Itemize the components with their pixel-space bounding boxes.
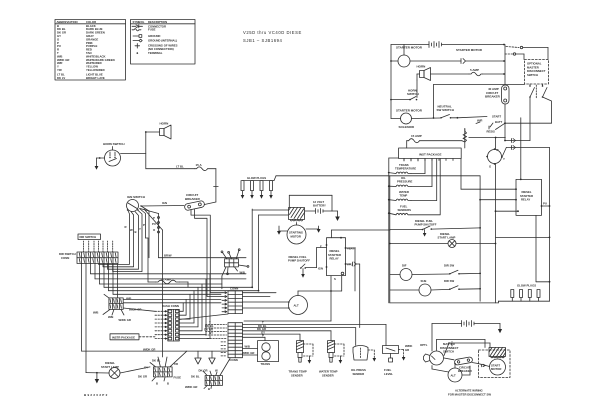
svg-text:DK LV: DK LV [57,76,65,80]
battery ground arrow [498,324,502,334]
glow plugs right bank [498,284,549,302]
starting motor M3 [287,223,306,245]
svg-text:FUSE: FUSE [148,28,156,32]
svg-text:Y: Y [139,227,141,231]
svg-text:W/B: W/B [93,311,98,315]
lamp bus left [390,176,499,303]
trans T1 [242,337,279,366]
svg-text:15 A: 15 A [196,163,203,167]
ground arrows under W/DK GR wire [195,351,215,364]
ignition switch S6 [127,195,146,212]
svg-text:P: P [143,223,145,227]
optional master disconnect switch S2 [525,60,549,85]
fuse F3 15 A [146,163,216,171]
svg-text:SENDER: SENDER [291,373,303,377]
circuit breaker CB2 [141,193,216,211]
svg-text:BRIGHT LAVE: BRIGHT LAVE [86,76,105,80]
svg-text:Y/R: Y/R [57,68,62,72]
battery top loop wire [289,195,337,211]
connector J2 8-pin [93,294,155,322]
horn switch feed wire [121,132,146,169]
conn strip J4 [222,286,243,313]
dash conn J3 [155,274,228,341]
small connector K 6-pin [221,249,249,289]
relay wire from bus [479,176,516,301]
svg-text:R: R [497,148,499,152]
legend table left border [55,20,126,81]
svg-text:DIF: DIF [402,264,407,268]
svg-text:TEMPERATURE: TEMPERATURE [395,166,416,170]
wires into dir switch conn from above [84,241,113,252]
svg-text:+PU: +PU [347,263,353,267]
svg-text:HORN: HORN [160,122,169,126]
svg-text:GLOW PLUGS: GLOW PLUGS [517,284,536,288]
relay output to glow plug bus [496,206,551,282]
battery ground [335,211,340,221]
water temp sender [319,331,344,378]
svg-text:SYMBOL: SYMBOL [133,20,145,24]
svg-text:P: P [153,216,155,220]
svg-text:SW SWITCH: SW SWITCH [437,108,455,112]
diesel start lamp DS1 right [389,232,497,248]
starter motor M1 [396,45,423,68]
svg-text:HORN SWITCH: HORN SWITCH [103,142,125,146]
svg-text:CONN: CONN [230,358,238,362]
svg-text:OPTL: OPTL [420,343,428,347]
glow plug feed line [274,176,480,181]
svg-text:YELLOW/RED: YELLOW/RED [86,68,105,72]
svg-text:START LAMP: START LAMP [438,235,456,239]
svg-text:CONN: CONN [61,256,69,260]
legend symbol ground internal [133,39,142,42]
svg-text:PUMP SHUTOFF: PUMP SHUTOFF [288,259,310,263]
svg-text:B: B [135,230,137,234]
svg-text:DK GR: DK GR [199,369,208,373]
svg-text:STARTER MOTOR: STARTER MOTOR [396,46,423,50]
key switch feed wire [469,137,506,149]
long feed wires from left [82,264,260,373]
svg-text:G: G [489,165,491,169]
alternate wiring connections [432,340,490,376]
battery BAT3 [432,321,500,327]
gauge to package nested bends [404,159,440,215]
master disconnect switch S7 [420,324,459,366]
wire down to breaker [214,169,219,202]
dir switch 1 [412,264,481,275]
svg-text:W/DK GR: W/DK GR [143,347,155,351]
alternator ALT1 [243,291,308,315]
svg-text:GLOW PLUGS: GLOW PLUGS [247,176,266,180]
conn strip J5 [204,321,243,362]
svg-text:W/DK GR: W/DK GR [242,351,254,355]
legend table left text [57,20,115,80]
alternate wiring caption [448,389,491,397]
svg-text:V25D thru VC40D DIESE: V25D thru VC40D DIESE [243,30,302,35]
svg-text:ABBREVIATION: ABBREVIATION [57,20,78,24]
circuit breaker CB1 40 AMP [485,85,509,141]
svg-text:B: B [167,382,169,386]
right edge bus [549,148,551,302]
svg-text:IGN SWITCH: IGN SWITCH [127,195,145,199]
svg-text:W: W [130,228,133,232]
neutral safety switch S3 [412,105,459,119]
legend symbol ground [133,35,142,38]
gauge bus left [388,158,399,303]
svg-text:SENDER: SENDER [353,372,365,376]
ignition switch fan-out wires [99,206,163,357]
svg-text:B: B [156,382,158,386]
svg-text:STARTER MOTOR: STARTER MOTOR [396,109,423,113]
svg-text:TRANS: TRANS [261,362,271,366]
title text [243,30,302,43]
dir switch 2 [431,279,481,290]
svg-text:W: W [215,369,218,373]
key switch S4 ignition [476,122,505,169]
svg-text:S: S [334,277,336,281]
legend symbol connector [132,25,143,28]
svg-text:RESIS: RESIS [487,130,496,134]
svg-text:PU: PU [152,222,156,226]
dashed link to disconnect pole 2 [505,53,524,60]
relay wire bottom left pin [495,164,518,303]
svg-text:W/B: W/B [108,315,113,319]
svg-text:LT BL: LT BL [176,165,184,169]
circuit breaker CB3 [444,357,473,373]
relay K2 wires [244,230,390,328]
gauge trans temperature [395,163,416,174]
starting motor ground left [277,226,287,235]
svg-text:GROUND: GROUND [148,34,160,38]
svg-text:DASH CONN: DASH CONN [162,304,179,308]
key switch start contact wire [457,115,502,134]
svg-text:SENDER: SENDER [322,373,334,377]
svg-text:BATT: BATT [495,120,503,124]
svg-text:IGN: IGN [318,267,323,271]
svg-text:BR/W: BR/W [164,254,172,258]
svg-text:GY: GY [144,366,148,370]
diesel fuel pump shutoff SOL1 center [288,255,310,278]
fuel level sender [383,324,413,375]
dir switch label box [78,234,101,240]
diesel starter relay K2 center [318,237,356,281]
svg-text:INSTR PACKAGE: INSTR PACKAGE [112,335,135,339]
glow plugs left bank [241,176,274,199]
fuse F1 5 AMP [431,68,505,76]
legend symbol terminal [137,52,139,54]
svg-text:BREAKER: BREAKER [485,95,501,99]
svg-text:5 AMP: 5 AMP [470,68,479,72]
wire BR/W to connector [159,254,247,258]
legend symbol crossing of wires [135,44,140,49]
battery BAT1 [391,42,504,48]
svg-text:B: B [208,387,210,391]
inst package box [399,129,465,161]
svg-text:15 AMP: 15 AMP [411,134,422,138]
svg-text:R: R [125,225,127,229]
wire mesh below dir switch conn [91,264,247,303]
svg-text:P: P [262,334,264,338]
svg-text:START: START [492,115,501,119]
dif lamp L1 [390,264,412,281]
relay wire from inst package [461,159,516,190]
wires from ign switch right to lower right [140,209,160,258]
svg-text:O: O [153,228,156,232]
svg-text:PU: PU [543,202,547,206]
trans temp sender [289,334,314,377]
disconnect switch poles [505,84,552,141]
svg-text:IGN: IGN [162,201,167,205]
connector on starter cable [410,59,504,64]
instrument loop rectangle [433,85,525,119]
svg-text:PRESSURE: PRESSURE [397,179,413,183]
svg-text:DIR SWITCH: DIR SWITCH [80,235,97,239]
svg-text:GR: GR [405,348,409,352]
svg-text:GROUND (INTERNAL): GROUND (INTERNAL) [148,39,177,43]
bottom connector J6 [138,351,187,385]
svg-text:W/B: W/B [245,345,250,349]
svg-text:DK GR: DK GR [138,375,147,379]
svg-text:BREAKER: BREAKER [185,197,201,201]
oil pressure sender [351,328,376,376]
svg-text:MOTOR: MOTOR [291,234,301,238]
dir switch conn J1 [59,252,118,264]
gauge fuel senders [396,204,411,215]
svg-text:FOR MASTER DISCONNECT SW: FOR MASTER DISCONNECT SW [448,392,491,396]
stepped wires from breaker to conn J4 [191,210,222,297]
legend table right border [131,20,196,65]
svg-text:TERMINAL: TERMINAL [148,51,163,55]
gauge water temp [396,190,411,201]
diesel start lamp DS2 [86,361,150,384]
center wire loop left [252,209,288,291]
svg-text:FUSE: FUSE [174,376,182,380]
starter motor solenoid M2 [390,45,423,129]
starting motor solenoid coil [252,208,304,222]
sub lamp L2 [390,279,431,296]
svg-text:MOTOR: MOTOR [491,367,501,371]
svg-text:PUMP SHUTOFF: PUMP SHUTOFF [415,223,437,227]
svg-text:TEMP: TEMP [400,194,408,198]
gauge oil pressure [396,176,413,187]
solenoid ground right [306,226,321,233]
12 volt battery BAT2 [305,200,333,214]
svg-text:ALT: ALT [451,374,457,378]
svg-text:W/DK GR: W/DK GR [119,318,131,322]
svg-text:LEVEL: LEVEL [384,372,393,376]
svg-text:SENDERS: SENDERS [398,208,412,212]
horn switch S1 [390,80,419,101]
svg-text:DK BL: DK BL [191,375,200,379]
acc wire to disconnect pole [502,146,550,158]
svg-text:Y: Y [503,157,505,161]
svg-text:W/DK GR: W/DK GR [185,385,197,389]
start motor M4 with solenoid [479,348,511,378]
svg-text:STARTER MOTOR: STARTER MOTOR [456,48,483,52]
batt wire to disconnect pole [504,139,530,143]
horn H1 [417,65,431,81]
svg-text:BATTERY: BATTERY [313,204,326,208]
diesel fuel pump shutoff right [390,219,481,237]
fuse F4 75 AMP [148,238,188,287]
fuse F2 15 AMP [407,134,462,148]
svg-text:SJB1 – SJB1694: SJB1 – SJB1694 [243,38,282,43]
svg-text:SOLENOID: SOLENOID [399,125,416,129]
svg-text:HORN: HORN [417,65,426,69]
svg-text:INST PACKAGE: INST PACKAGE [419,153,441,157]
relay coil feed vertical [520,118,522,180]
bottom connector J7 [185,359,230,392]
alternator ALT2 [448,368,462,382]
node at main bus top [503,44,505,46]
horn H2 [145,122,171,140]
resistor R1 [462,129,467,143]
svg-text:SUB: SUB [421,279,427,283]
dashed link to disconnect pole 1 [506,46,548,59]
horn switch ground [95,157,105,170]
svg-text:DIR SW: DIR SW [444,264,454,268]
svg-text:ALT: ALT [294,304,300,308]
sender bus wires [243,321,387,338]
svg-text:SWITCH: SWITCH [527,73,538,77]
svg-text:RELAY: RELAY [330,257,339,261]
svg-text:B92202P2: B92202P2 [84,393,109,397]
main bus vertical [504,45,506,86]
legend symbol fuse [132,29,141,31]
diesel starter relay K1 [515,179,547,216]
long wire W/DK GR [82,347,228,351]
svg-text:RELAY: RELAY [521,198,530,202]
instr package label box [110,334,155,340]
svg-text:DIR SW: DIR SW [444,279,454,283]
horn switch S5 [103,142,125,166]
svg-text:W/B: W/B [126,297,131,301]
legend table right text [133,20,178,55]
